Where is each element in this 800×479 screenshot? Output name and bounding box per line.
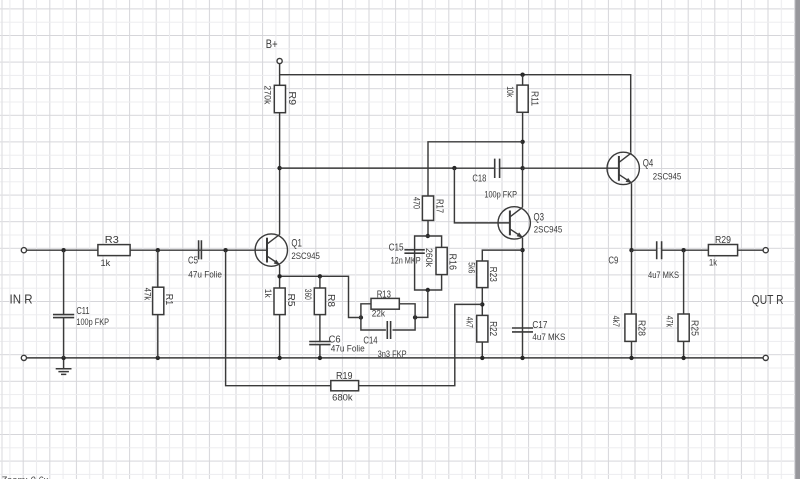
junction Q3 emitter node [520, 248, 524, 252]
svg-text:R19: R19 [336, 370, 353, 382]
svg-text:B+: B+ [266, 37, 278, 51]
wire R11 top stub [522, 75, 524, 85]
svg-text:1k: 1k [101, 258, 111, 268]
capacitor C9 [608, 241, 679, 280]
resistor R16 [424, 247, 459, 274]
svg-text:C17: C17 [532, 319, 547, 331]
wire Q4 emitter to output node [631, 183, 633, 250]
wire Q3 base drop [454, 168, 510, 223]
svg-text:R3: R3 [105, 234, 119, 246]
resistor R23 [467, 261, 500, 288]
wire output node to C9 and R29 [632, 249, 709, 251]
wire Q1 emitter down / R5 top [279, 265, 281, 288]
wire R11 bottom to C18 node [522, 112, 524, 168]
svg-text:IN R: IN R [10, 293, 33, 307]
svg-text:22k: 22k [372, 309, 386, 319]
wire R5 bottom to rail [279, 315, 281, 358]
input terminal bottom [21, 355, 26, 360]
svg-text:Zoom: 0.6x: Zoom: 0.6x [0, 475, 49, 479]
wire R8 top stub [319, 276, 321, 288]
resistor R17 [412, 196, 446, 220]
svg-text:2SC945: 2SC945 [291, 251, 320, 261]
svg-text:4k7: 4k7 [611, 316, 621, 327]
wire ground rail [27, 357, 763, 359]
wire input top rail [27, 249, 267, 251]
junction C18 left / Q3 base node [452, 166, 456, 170]
svg-text:47u Folie: 47u Folie [331, 344, 365, 354]
capacitor C6 [309, 333, 365, 353]
svg-text:C5: C5 [188, 255, 198, 267]
wire R28 column [631, 250, 633, 358]
resistor R1 [142, 287, 175, 314]
wire Q3 emitter node to R23 [482, 250, 522, 261]
junction C15/R16 top [426, 234, 430, 238]
svg-text:R22: R22 [487, 321, 499, 336]
svg-text:270k: 270k [262, 85, 272, 105]
svg-text:C18: C18 [472, 172, 486, 184]
junction R8 top node [318, 274, 322, 278]
svg-text:47k: 47k [142, 288, 152, 301]
junction R13/C14 right node [413, 315, 417, 319]
wire R22 bottom to rail [481, 342, 483, 358]
resistor R5 [263, 288, 297, 315]
wire R9 bottom to Q1 collector [279, 113, 281, 235]
svg-text:C14: C14 [363, 335, 377, 347]
resistor R19 [331, 370, 359, 402]
resistor R22 [465, 315, 500, 342]
svg-text:680k: 680k [332, 392, 353, 402]
wire R8 bottom through C6 to rail [319, 315, 321, 358]
wire Q3 emitter down to rail [522, 238, 524, 358]
wire B+ stub down to R9 [279, 64, 281, 86]
resistor R29 [708, 234, 737, 268]
wire B+ rail to Q4 collector [280, 75, 631, 153]
svg-text:5k6: 5k6 [467, 262, 477, 273]
junction R11/R17 node [520, 140, 524, 144]
svg-text:100p FKP: 100p FKP [76, 317, 109, 327]
output terminal bottom [763, 355, 768, 360]
junction R11 top on B+ rail [520, 73, 524, 77]
junction C17 bottom [520, 356, 524, 360]
svg-text:R1: R1 [163, 294, 175, 306]
capacitor C18 [454, 159, 522, 200]
svg-text:C15: C15 [389, 242, 404, 254]
transistor Q1 [255, 234, 320, 266]
svg-text:R16: R16 [446, 254, 458, 271]
svg-text:47k: 47k [665, 316, 675, 328]
svg-text:R28: R28 [635, 320, 647, 336]
svg-text:Q1: Q1 [291, 238, 302, 250]
junction R25 top node [681, 248, 685, 252]
B+ terminal [277, 58, 282, 63]
resistor R11 [505, 85, 540, 112]
svg-text:360: 360 [303, 289, 313, 300]
wire R13 branch [361, 304, 415, 318]
wire C15/R16 bottom to R13/C14 right node [415, 290, 428, 317]
junction C11 top [61, 248, 65, 252]
resistor R8 [303, 288, 337, 315]
svg-text:4u7 MKS: 4u7 MKS [648, 270, 679, 280]
svg-text:R25: R25 [688, 320, 700, 336]
junction Q1 collector node [277, 166, 281, 170]
svg-text:2SC945: 2SC945 [534, 225, 563, 235]
svg-text:R9: R9 [286, 91, 298, 105]
wire Q1 collector node to C18/Q3 base node [280, 167, 455, 169]
svg-text:Q4: Q4 [643, 158, 654, 170]
junction C18 right / Q4 base node [520, 166, 524, 170]
resistor R13 [371, 288, 399, 318]
svg-text:R5: R5 [285, 294, 297, 307]
wire Q3 collector up [522, 168, 524, 207]
junction Q1 emitter node [277, 274, 281, 278]
junction output node (Q4 emitter / C9 / R28) [629, 248, 633, 252]
svg-text:Q3: Q3 [534, 212, 545, 224]
svg-text:470: 470 [412, 197, 422, 209]
svg-text:12n MKP: 12n MKP [391, 256, 421, 266]
junction C15/R16 bottom [426, 288, 430, 292]
junction C11 bottom [61, 356, 65, 360]
junction R22 bottom [480, 356, 484, 360]
wire R17 bottom to C15/R16 block [427, 220, 429, 236]
ground symbol [56, 360, 72, 374]
svg-text:4k7: 4k7 [465, 317, 475, 328]
svg-text:R11: R11 [529, 91, 541, 106]
junction R5 bottom [277, 356, 281, 360]
wire R1 column [157, 250, 159, 358]
capacitor C5 [188, 240, 222, 279]
resistor R9 [262, 85, 297, 112]
resistor R28 [611, 314, 647, 341]
svg-text:R8: R8 [325, 294, 337, 307]
junction feedback tap on input rail [223, 248, 227, 252]
svg-text:C9: C9 [608, 254, 618, 266]
resistor R25 [665, 314, 701, 341]
wire R13/C14 left node to Q1 emitter rail [280, 276, 361, 317]
wire C11 column [63, 250, 65, 358]
svg-text:C11: C11 [76, 305, 89, 317]
wire R16 branch [428, 236, 442, 290]
junction R28 bottom [629, 356, 633, 360]
input terminal top [21, 248, 26, 253]
svg-text:100p FKP: 100p FKP [484, 189, 517, 199]
wire R29 to output terminal [738, 249, 764, 251]
capacitor C14 [363, 321, 406, 359]
junction R23/R22 feedback node [480, 302, 484, 306]
svg-text:QUT R: QUT R [752, 293, 784, 307]
svg-text:1k: 1k [709, 258, 718, 268]
svg-text:R29: R29 [715, 234, 731, 246]
svg-text:4u7 MKS: 4u7 MKS [532, 332, 565, 342]
wire feedback: tap down, along bottom, up to R23/R22 node [226, 250, 483, 386]
junction C6 bottom [318, 356, 322, 360]
wire R23 bottom to R22 top [481, 288, 483, 316]
wire to R17 top [428, 142, 523, 196]
svg-text:R23: R23 [487, 267, 499, 282]
capacitor C17 [512, 319, 566, 342]
svg-text:2SC945: 2SC945 [653, 171, 682, 181]
wire R25 column [683, 250, 685, 358]
scrollbar right edge [795, 0, 800, 479]
wire Q4 base [523, 167, 619, 169]
svg-text:47u Folie: 47u Folie [188, 269, 222, 279]
junction R1 top [156, 248, 160, 252]
svg-text:R13: R13 [377, 288, 391, 300]
transistor Q4 [607, 152, 681, 184]
svg-text:1k: 1k [263, 289, 273, 299]
svg-text:260k: 260k [424, 248, 434, 268]
wire C15 branch [415, 236, 428, 290]
wire C14 branch [361, 317, 415, 330]
junction R25 bottom [681, 356, 685, 360]
svg-text:10k: 10k [505, 86, 515, 97]
resistor R3 [98, 234, 130, 268]
transistor Q3 [498, 207, 562, 239]
capacitor C11 [53, 305, 109, 327]
capacitor C15 [389, 242, 425, 266]
junction R13/C14 left node [359, 315, 363, 319]
output terminal top [763, 248, 768, 253]
junction R1 bottom [156, 356, 160, 360]
svg-text:R17: R17 [433, 199, 445, 213]
